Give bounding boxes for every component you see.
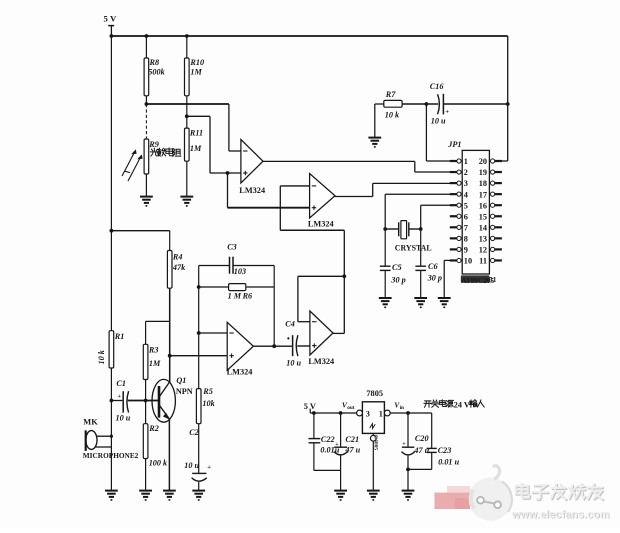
ground under Q1 emitter	[163, 491, 176, 500]
svg-text:C23: C23	[438, 446, 452, 455]
svg-text:100 k: 100 k	[149, 458, 168, 467]
regulator U2 7805	[357, 389, 391, 434]
svg-text:47k: 47k	[172, 263, 186, 272]
wire: R3 bottom to base node	[144, 380, 148, 403]
photoresistor light arrows	[122, 149, 143, 181]
svg-text:3: 3	[464, 179, 468, 188]
resistor R9 photoresistor	[144, 139, 159, 174]
wire: feedback right side to U1C output	[272, 266, 276, 349]
svg-text:CRYSTAL: CRYSTAL	[395, 243, 432, 252]
ground under C6	[414, 298, 427, 307]
svg-text:1M: 1M	[149, 359, 161, 368]
JP1 pin 10 (left)	[450, 257, 472, 266]
svg-text:7805: 7805	[366, 389, 383, 398]
wire: right drop column rail to JP1 pin20	[495, 36, 508, 161]
op-amp U1C LM324	[227, 322, 253, 370]
node: base wire junction on left column	[110, 399, 114, 403]
capacitor C2	[184, 424, 211, 491]
svg-text:1: 1	[379, 410, 383, 419]
wire: left column to R4 branch	[110, 229, 170, 251]
svg-text:in: in	[400, 405, 404, 411]
svg-text:LM324: LM324	[308, 220, 334, 229]
wire: collector node into U1C plus	[170, 355, 228, 357]
svg-text:R9: R9	[148, 140, 159, 149]
svg-text:47 u: 47 u	[413, 446, 429, 455]
wire: R8 to node, node dot	[145, 96, 149, 106]
resistor R7	[384, 90, 402, 119]
resistor R11	[185, 128, 204, 161]
JP1 pin 7 (left)	[450, 223, 468, 232]
node 5V output label (supply section)	[304, 402, 316, 413]
svg-text:R1: R1	[114, 332, 125, 341]
svg-text:R7: R7	[385, 90, 396, 99]
label 光敏电阻 for R9	[150, 148, 181, 157]
op-amp U1A LM324	[241, 140, 263, 184]
svg-text:www.elecfans.com: www.elecfans.com	[511, 509, 610, 521]
capacitor C1	[111, 379, 130, 422]
ground under R2	[139, 491, 152, 500]
svg-text:C3: C3	[227, 242, 237, 251]
svg-text:1M: 1M	[190, 68, 202, 77]
wire: R11 to ground	[186, 161, 188, 196]
svg-text:R6: R6	[242, 292, 253, 301]
svg-text:47 u: 47 u	[344, 446, 360, 455]
capacitor C22	[309, 413, 341, 470]
svg-text:+: +	[117, 393, 121, 400]
svg-text:24 V: 24 V	[454, 400, 470, 409]
JP1 pin 20 (right)	[479, 157, 502, 166]
wire: C1 to Q1 base	[128, 400, 159, 402]
wire: R10 to divider node	[185, 96, 189, 128]
wire: JP1 pin10 to ground	[444, 260, 457, 298]
JP1 pin 14 (right)	[479, 223, 502, 232]
JP1 pin 1 (left)	[450, 157, 468, 166]
svg-text:12: 12	[479, 246, 487, 255]
resistor R8	[144, 58, 165, 96]
svg-text:14: 14	[479, 223, 487, 232]
JP1 pin 15 (right)	[479, 212, 502, 221]
capacitor C6	[415, 229, 442, 298]
resistor R4	[167, 251, 186, 289]
wire: R8/R9 node to U1A inverting input	[146, 104, 241, 151]
resistor R5	[196, 387, 215, 424]
wire: U1A output to JP1 pin2 (with jog)	[263, 161, 457, 172]
JP1 pin 19 (right)	[479, 168, 502, 177]
JP1 pin 11 (right)	[479, 257, 502, 266]
wire: C4 to U1D plus input	[297, 345, 310, 347]
svg-text:4: 4	[464, 190, 468, 199]
capacitor C5	[380, 229, 406, 298]
svg-text:6: 6	[464, 212, 468, 221]
wire: 5V top rail	[110, 34, 508, 38]
svg-text:R2: R2	[148, 424, 159, 433]
svg-text:11: 11	[479, 257, 487, 266]
svg-text:R11: R11	[189, 128, 203, 137]
op-amp U1B LM324	[310, 174, 335, 219]
svg-text:13: 13	[479, 234, 487, 243]
wire: U1B inverting input loop down to U1D	[280, 186, 346, 334]
wire: JP1 pin4 to crystal left	[385, 194, 457, 229]
connector JP1 body	[447, 140, 489, 274]
capacitor C20	[402, 413, 430, 491]
ground under R9	[140, 197, 153, 206]
JP1 pin 17 (right)	[479, 190, 502, 199]
svg-text:+: +	[335, 442, 339, 448]
capacitor C23	[408, 413, 460, 469]
capacitor C16	[430, 82, 450, 125]
svg-text:1: 1	[464, 157, 468, 166]
svg-text:1M: 1M	[190, 144, 202, 153]
svg-text:NPN: NPN	[176, 387, 193, 396]
ground under R1/mic column	[105, 491, 118, 500]
label 10 k (vertical) for R1	[97, 349, 106, 364]
svg-text:1 M: 1 M	[228, 292, 242, 301]
decorative watermark (not labelled further)	[435, 466, 611, 522]
label Vin	[394, 400, 404, 410]
svg-text:C1: C1	[116, 379, 126, 388]
svg-text:19: 19	[479, 168, 487, 177]
svg-text:C20: C20	[415, 434, 429, 443]
wire: node to R9 (dashed scan)	[145, 104, 147, 139]
svg-text:17: 17	[479, 190, 487, 199]
svg-text:10 k: 10 k	[385, 111, 400, 120]
label AT89C2051 (struck through) under JP1	[461, 275, 497, 285]
JP1 pin 9 (left)	[450, 246, 468, 255]
JP1 pin 4 (left)	[450, 190, 468, 199]
svg-text:out: out	[347, 405, 354, 411]
JP1 pin 8 (left)	[450, 234, 468, 243]
wire: R9 to ground	[145, 174, 147, 197]
svg-text:C21: C21	[345, 435, 359, 444]
svg-text:C16: C16	[430, 82, 445, 91]
svg-text:20: 20	[479, 157, 487, 166]
resistor R3	[143, 344, 161, 379]
capacitor C4	[285, 319, 301, 367]
resistor R1	[109, 331, 124, 368]
node 5V power label	[104, 13, 117, 25]
wire: U1C output to C4	[253, 345, 292, 347]
svg-text:2: 2	[464, 168, 468, 177]
svg-text:10 u: 10 u	[431, 116, 446, 125]
wire: U1A plus node down to U1B plus input	[228, 173, 310, 208]
transistor Q1 NPN	[152, 376, 193, 422]
label Vout	[342, 400, 355, 410]
svg-text:+: +	[207, 464, 211, 471]
ground under R11	[180, 197, 193, 206]
svg-text:51: 51	[489, 275, 497, 284]
JP1 pin 18 (right)	[479, 179, 502, 188]
JP1 pin 6 (left)	[450, 212, 468, 221]
wire: R7 left leg to ground	[375, 104, 384, 138]
svg-text:7: 7	[464, 223, 468, 232]
svg-text:LM324: LM324	[308, 357, 334, 366]
ground under C20	[402, 491, 415, 500]
svg-text:500k: 500k	[148, 68, 165, 77]
crystal CRYSTAL	[383, 221, 431, 253]
svg-text:10 k: 10 k	[97, 349, 106, 364]
svg-text:+: +	[402, 441, 406, 447]
svg-text:C4005: C4005	[373, 435, 379, 450]
wire: minus node into U1C	[199, 332, 228, 334]
wire: 5V rail to 7805 pin3	[310, 411, 357, 415]
svg-text:Q1: Q1	[176, 376, 186, 385]
svg-text:C2: C2	[189, 428, 199, 437]
label 开关电源24 V输入	[424, 400, 484, 410]
wire: R2 to ground	[145, 459, 147, 491]
svg-text:MICROPHONE2: MICROPHONE2	[83, 451, 139, 460]
svg-text:JP1: JP1	[447, 140, 461, 149]
wire: 7805 pin2 (gnd) down	[370, 434, 376, 491]
svg-text:C6: C6	[428, 262, 438, 271]
svg-text:30 p: 30 p	[390, 275, 405, 284]
wire: U1B output to JP1 pin3	[335, 183, 457, 196]
svg-text:9: 9	[464, 246, 468, 255]
resistor R2	[143, 401, 168, 468]
wire: R3 top tie to collector column	[146, 321, 170, 344]
svg-text:3: 3	[366, 410, 370, 419]
wire: R7 to C16	[402, 102, 438, 106]
wire: rail to R8	[145, 34, 149, 58]
capacitor C3	[199, 242, 275, 276]
svg-text:LM324: LM324	[239, 186, 265, 195]
svg-text:C22: C22	[321, 435, 335, 444]
ground under C2	[192, 491, 205, 500]
wire: C16 to right drop column	[443, 102, 509, 106]
svg-text:10 u: 10 u	[286, 358, 301, 367]
ground under JP1 pin10	[438, 298, 451, 307]
svg-text:10 u: 10 u	[184, 461, 199, 470]
capacitor C21	[334, 413, 361, 491]
ground under C21	[334, 491, 347, 500]
ground under R7	[368, 138, 381, 147]
microphone MK	[83, 418, 139, 460]
svg-text:R3: R3	[148, 345, 159, 354]
svg-text:5: 5	[464, 201, 468, 210]
wire: Q1 emitter to ground	[168, 419, 170, 491]
JP1 pin 16 (right)	[479, 201, 502, 210]
wire: R10/R11 node to U1A non-inverting input	[187, 116, 241, 175]
wire: minus-node column (C3/R6 left, R5)	[197, 266, 201, 389]
svg-text:15: 15	[479, 212, 487, 221]
svg-text:+: +	[445, 109, 449, 116]
svg-text:0.01 u: 0.01 u	[438, 457, 459, 466]
JP1 pin 3 (left)	[450, 179, 468, 188]
wire: rail to R10	[185, 34, 189, 58]
resistor R6	[199, 284, 275, 301]
svg-text:C5: C5	[392, 263, 402, 272]
op-amp U1D LM324	[310, 311, 333, 355]
svg-text:LM324: LM324	[227, 368, 253, 377]
wire: R4 down to collector column	[168, 288, 172, 382]
svg-text:30 p: 30 p	[427, 274, 442, 283]
wire: JP1 pin5 to crystal right	[421, 205, 457, 229]
ground under C5	[379, 298, 392, 307]
JP1 pin 12 (right)	[479, 246, 502, 255]
ground under 7805	[367, 491, 380, 500]
JP1 pin 13 (right)	[479, 234, 502, 243]
resistor R10	[185, 58, 205, 96]
svg-text:MK: MK	[83, 418, 98, 427]
svg-text:R5: R5	[202, 387, 213, 396]
svg-text:18: 18	[479, 179, 487, 188]
svg-text:8: 8	[464, 234, 468, 243]
svg-text:10: 10	[464, 257, 472, 266]
wire: U1D output into feedback column	[333, 332, 344, 334]
svg-text:10k: 10k	[202, 399, 215, 408]
svg-text:103: 103	[234, 267, 246, 276]
wire: 7805 pin1 to 24V input	[390, 411, 432, 415]
svg-text:C4: C4	[285, 319, 295, 328]
svg-text:R8: R8	[149, 58, 160, 67]
svg-text:5 V: 5 V	[104, 13, 117, 23]
label vertical marking on 7805 ground pin	[373, 435, 379, 450]
svg-text:R10: R10	[189, 58, 204, 67]
JP1 pin 2 (left)	[450, 168, 468, 177]
wire: 5V vertical drop from label to rail	[110, 26, 112, 36]
svg-text:R4: R4	[172, 252, 183, 261]
wire: C16 node down to JP1 pin1	[426, 104, 456, 161]
svg-text:10 u: 10 u	[116, 414, 131, 423]
JP1 pin 5 (left)	[450, 201, 468, 210]
wire: left column vertical (5V to R1, C1 node, mic node, ground)	[110, 36, 112, 491]
svg-text:16: 16	[479, 201, 487, 210]
